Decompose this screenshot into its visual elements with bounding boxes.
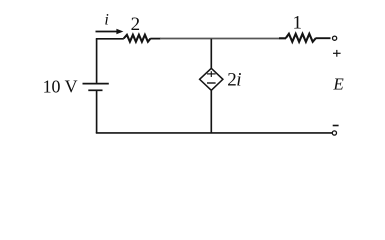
svg-text:10 V: 10 V [43, 76, 78, 96]
svg-text:E: E [332, 75, 344, 94]
svg-text:i: i [236, 70, 241, 91]
svg-text:1: 1 [292, 13, 302, 34]
svg-text:i: i [104, 12, 108, 29]
svg-text:2: 2 [131, 14, 141, 35]
